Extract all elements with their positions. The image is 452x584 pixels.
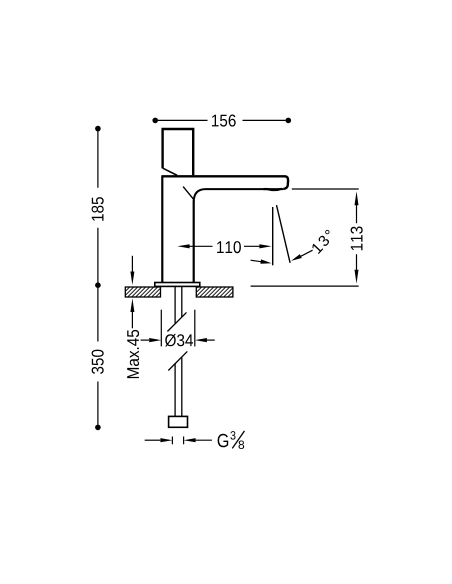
dimension 185 line <box>97 131 99 283</box>
dimension 113 line <box>356 205 358 271</box>
dia34 left arrow <box>141 339 149 341</box>
body column right edge <box>193 201 195 283</box>
G3/8 label <box>218 434 229 448</box>
water stream vertical reference line <box>272 207 274 265</box>
dimension 350 line <box>97 288 99 425</box>
dimension 110 right arrowhead <box>259 244 271 248</box>
dimension 113 bottom arrowhead <box>355 270 359 284</box>
dimension 185 label <box>92 197 104 221</box>
spout underside <box>194 189 284 201</box>
dimension 110 label <box>217 241 241 253</box>
dimension 156 end dots <box>152 118 158 124</box>
faucet body top surface and spout outline <box>161 176 288 189</box>
G3/8 right tick <box>183 437 185 445</box>
angle 13 deg label <box>312 230 329 254</box>
Max.45 label <box>127 330 139 378</box>
dimension 110 line <box>189 245 261 247</box>
supply pipe lower segment <box>175 357 182 416</box>
handle bottom diagonal edge <box>163 168 177 175</box>
dia34 right extension line <box>194 310 196 347</box>
countertop right hatched section <box>196 287 233 297</box>
extension line at counter level right <box>251 285 359 287</box>
G3/8 dimension left arrow <box>145 439 161 441</box>
dia34 left extension line <box>160 310 162 347</box>
angle dim arrow to vertical line <box>251 260 261 262</box>
pipe break line lower <box>168 351 187 370</box>
G3/8 left tick <box>171 437 173 445</box>
Max.45 top arrow (down) <box>131 256 133 273</box>
G3/8 dimension right arrow <box>196 439 212 441</box>
supply pipe upper segment <box>175 287 182 324</box>
body column left edge <box>161 176 163 282</box>
dimension 350 label <box>92 350 104 374</box>
dia34 right arrow <box>207 339 215 341</box>
countertop left hatched section <box>125 287 160 297</box>
dimension 156 label <box>212 115 236 127</box>
dimension 350 end dots <box>95 425 101 431</box>
pipe break line upper <box>167 312 186 331</box>
aerator (water outlet) thick mark <box>263 189 282 190</box>
inner seam diagonal in body <box>183 187 193 200</box>
connection nut G3/8 <box>169 416 188 427</box>
dimension 110 left arrowhead <box>177 244 189 248</box>
water stream angled line 13deg <box>277 205 291 263</box>
Max.45 bottom arrow (up) <box>131 312 133 329</box>
dimension 156 line <box>158 119 286 121</box>
dimension 113 top arrowhead <box>355 191 359 205</box>
extension line from spout to 113 dim <box>292 188 359 190</box>
base flange on countertop <box>155 283 200 287</box>
angle dim arrow to angled line <box>301 250 313 256</box>
dia34 label <box>165 334 193 347</box>
dimension 185 end dots <box>95 126 101 132</box>
faucet handle (lever) <box>163 129 194 175</box>
dimension 113 label <box>351 227 363 251</box>
